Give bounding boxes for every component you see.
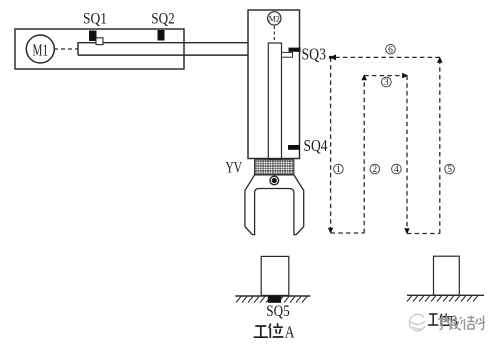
path line 2 (up) [363, 76, 365, 233]
svg-text:4: 4 [394, 165, 399, 175]
svg-text:6: 6 [388, 45, 393, 55]
gripper mount hatch block [255, 160, 294, 175]
path bottom segment B [407, 233, 440, 235]
SQ3 actuator tab [282, 52, 293, 57]
limit switch SQ3 [289, 48, 301, 52]
dashed link M2 to rod [273, 26, 275, 42]
vertical rod [268, 43, 281, 160]
step number 1 [334, 164, 344, 175]
vertical column [248, 10, 300, 159]
svg-text:A: A [285, 322, 295, 341]
svg-text:2: 2 [372, 165, 377, 175]
motor M2 [268, 12, 281, 25]
arrow right at end of 3 [402, 73, 408, 79]
machine base box [15, 29, 184, 69]
dashed shaft line [54, 48, 78, 50]
step number 6 [386, 44, 396, 55]
horizontal arm [78, 43, 248, 55]
station B workpiece [434, 256, 460, 295]
arrow up at top of 5 [437, 57, 443, 63]
gripper body [245, 175, 304, 235]
svg-text:5: 5 [447, 165, 452, 175]
watermark logo [409, 314, 425, 330]
path line 5 (up) [439, 57, 441, 233]
svg-text:M1: M1 [33, 40, 49, 59]
step number 2 [370, 164, 380, 175]
limit switch SQ4 [288, 145, 300, 150]
label station B (drawn CJK) [428, 314, 450, 327]
motor M1 [26, 35, 54, 63]
svg-text:YV: YV [226, 159, 243, 176]
path line 4 (down) [406, 76, 408, 234]
arrow up at top of 2 [361, 74, 367, 80]
gripper pivot [270, 176, 279, 185]
label station A (drawn CJK) [254, 323, 284, 338]
watermark text (drawn CJK, gray) [438, 315, 485, 330]
arrow left at end of 6 [330, 54, 337, 60]
path bottom segment A [331, 232, 365, 234]
path line 6 (left) [332, 56, 440, 58]
svg-text:1: 1 [336, 165, 341, 175]
step number 5 [445, 164, 455, 175]
svg-text:3: 3 [384, 78, 389, 88]
path line 1 (down) [330, 57, 332, 233]
arrow down at bottom of 1 [328, 228, 333, 234]
svg-text:M2: M2 [269, 14, 280, 23]
limit switch SQ5 [268, 296, 281, 303]
station A ground [235, 295, 310, 297]
station B ground [407, 294, 484, 296]
svg-text:SQ4: SQ4 [304, 136, 328, 155]
svg-text:SQ2: SQ2 [151, 11, 175, 28]
limit switch SQ1 [89, 31, 97, 42]
station A workpiece [261, 256, 289, 295]
svg-text:SQ5: SQ5 [266, 303, 290, 320]
SQ1 actuator tab [96, 38, 103, 45]
limit switch SQ2 [158, 30, 165, 41]
step number 3 [382, 77, 392, 88]
svg-text:SQ3: SQ3 [302, 45, 327, 64]
arrow down at bottom of 4 [404, 228, 409, 234]
svg-text:SQ1: SQ1 [83, 11, 107, 28]
path line 3 (right) [364, 75, 407, 77]
step number 4 [392, 164, 402, 175]
